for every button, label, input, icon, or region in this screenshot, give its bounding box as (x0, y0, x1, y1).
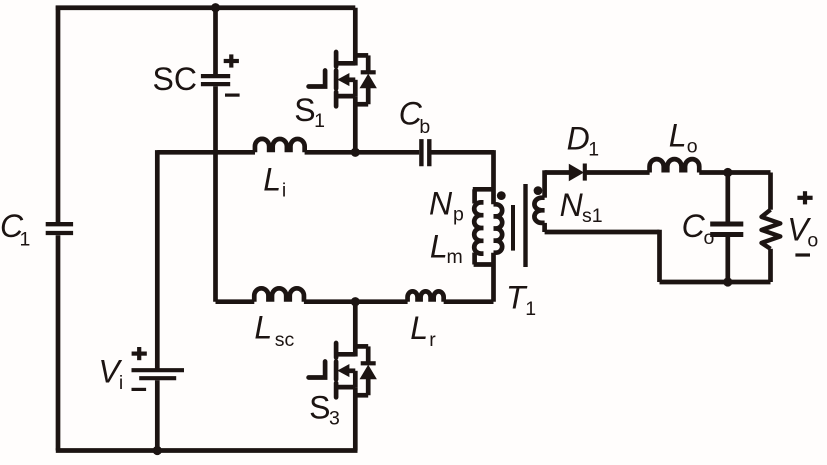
wire Vo bottom (768, 249, 773, 282)
svg-text:L: L (263, 161, 281, 197)
wire bottom rail (56, 448, 358, 453)
svg-text:D: D (567, 121, 590, 157)
svg-text:N: N (429, 185, 453, 221)
svg-text:i: i (282, 180, 286, 202)
diode D1 cathode bar (583, 164, 587, 181)
svg-text:o: o (687, 135, 698, 157)
capacitor Cb (421, 139, 429, 166)
wire SC to Lsc (216, 299, 255, 304)
wire S1 drain (353, 8, 358, 66)
phase dot secondary (534, 186, 543, 195)
svg-text:SC: SC (153, 61, 197, 97)
minus Vo (795, 253, 810, 256)
resistor Vo load (762, 210, 781, 249)
diode D1 (569, 165, 583, 181)
winding Lm left column (474, 202, 483, 253)
wire Lsc to Lr (304, 299, 408, 304)
svg-text:1: 1 (314, 110, 325, 132)
svg-text:b: b (419, 116, 430, 138)
wire Co bottom (725, 237, 730, 282)
winding Ns1 secondary (534, 198, 544, 223)
transistor S1 (334, 52, 339, 67)
wire output bottom (660, 280, 771, 285)
capacitor C1 (46, 224, 73, 233)
wire S3 source (353, 387, 358, 450)
node top rail junction (211, 3, 220, 12)
svg-text:L: L (254, 310, 272, 346)
wire primary bottom (491, 253, 496, 302)
inductor Lsc (254, 288, 304, 301)
wire mid to Cb (305, 150, 420, 155)
wire SC top (213, 6, 218, 75)
svg-text:i: i (119, 372, 123, 394)
wire Lr to primary (444, 299, 494, 304)
wire Lm top stub (472, 189, 477, 203)
inductor Lo (650, 159, 700, 172)
wire secondary bottom lead (542, 223, 547, 232)
wire top rail (56, 5, 356, 10)
core bar right (523, 184, 527, 267)
wire Vi to bottom rail (155, 380, 160, 450)
node Co top junction (723, 168, 732, 177)
capacitor Co (710, 224, 743, 235)
wire down to primary (491, 150, 496, 204)
plus SC (224, 59, 239, 63)
svg-text:1: 1 (20, 229, 31, 251)
svg-text:L: L (410, 310, 428, 346)
svg-text:S: S (309, 390, 330, 426)
svg-text:3: 3 (329, 408, 340, 430)
battery Vi short plate (139, 376, 176, 380)
svg-text:o: o (704, 227, 715, 249)
wire Co top (725, 173, 730, 222)
svg-text:L: L (669, 118, 687, 154)
wire D1 to Lo (583, 170, 650, 175)
wire S1 source (353, 96, 358, 152)
minus Vi (132, 388, 147, 391)
svg-text:m: m (447, 246, 463, 268)
node bottom rail junction (153, 446, 162, 455)
svg-text:S: S (294, 92, 315, 128)
wire Vi branch upper (155, 150, 160, 370)
node S1 source / Li / Cb junction (351, 148, 360, 157)
node Lsc / Lr / S3 junction (351, 297, 360, 306)
wire Lo to output (699, 170, 770, 175)
svg-text:p: p (453, 203, 464, 225)
wire left rail lower (56, 235, 61, 450)
svg-text:C: C (682, 208, 706, 244)
node Co bottom junction (723, 277, 732, 286)
phase dot primary (497, 191, 506, 200)
winding Np right column (494, 204, 503, 252)
minus SC (225, 93, 240, 96)
transistor S3 (334, 343, 339, 358)
svg-text:o: o (807, 230, 818, 252)
svg-text:L: L (430, 228, 448, 264)
capacitor SC (201, 76, 230, 84)
svg-text:s1: s1 (582, 205, 603, 227)
svg-text:r: r (429, 329, 436, 351)
battery Vi long plate (132, 368, 185, 372)
wire mid left (157, 150, 255, 155)
wire left rail upper (56, 6, 61, 223)
plus Vo (797, 196, 812, 200)
wire secondary top lead (542, 170, 547, 197)
core bar left (511, 205, 515, 251)
inductor Lr (408, 291, 444, 301)
inductor Li (255, 139, 305, 152)
wire to Vo top (768, 173, 773, 210)
wire secondary bottom (545, 230, 660, 235)
wire S3 drain (353, 302, 358, 357)
wire to D1 (545, 170, 570, 175)
wire SC bottom (213, 86, 218, 302)
plus Vi (132, 352, 147, 356)
wire Cb to transformer (432, 150, 495, 155)
transformer T1 primary top bar (473, 187, 494, 192)
svg-text:N: N (560, 187, 584, 223)
svg-text:sc: sc (275, 329, 295, 351)
svg-text:1: 1 (588, 139, 599, 161)
wire Lm bottom stub (472, 253, 477, 265)
wire bottom drop (657, 230, 662, 282)
transformer primary bottom bar (474, 262, 494, 267)
svg-text:1: 1 (525, 298, 536, 320)
